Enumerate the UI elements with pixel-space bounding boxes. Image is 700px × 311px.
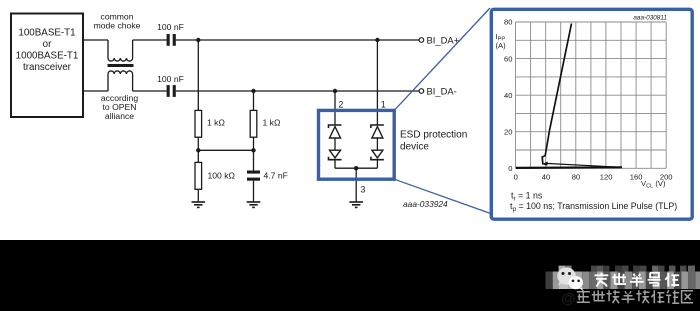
svg-text:BI_DA+: BI_DA+ bbox=[427, 35, 460, 46]
footer watermark text (CJK strokes) bbox=[577, 290, 693, 303]
svg-text:40: 40 bbox=[542, 173, 550, 182]
callout line bottom bbox=[394, 179, 492, 214]
wire ESD pin 1 stub bbox=[376, 40, 378, 125]
svg-text:ESD protection: ESD protection bbox=[400, 130, 467, 141]
svg-text:aaa-033924: aaa-033924 bbox=[403, 199, 448, 209]
footer wechat icon bbox=[557, 267, 583, 290]
diode D4 bottom right triangle bbox=[372, 150, 383, 158]
wire D1 to D2 bbox=[334, 138, 336, 150]
curve TLP flat leakage line bbox=[516, 166, 622, 169]
wire ESD bottom rail bbox=[335, 167, 377, 169]
diode D1 triangle bbox=[330, 127, 341, 138]
svg-text:40: 40 bbox=[504, 91, 512, 100]
graph grid bbox=[516, 22, 667, 168]
svg-text:1 kΩ: 1 kΩ bbox=[207, 118, 225, 128]
wire R2 to C3 bbox=[253, 137, 255, 170]
wire R1 branch bbox=[197, 40, 199, 110]
label common mode choke bbox=[94, 12, 141, 31]
svg-text:0: 0 bbox=[508, 164, 512, 173]
svg-text:60: 60 bbox=[504, 54, 512, 63]
wire top BI_DA+ line bbox=[83, 39, 419, 41]
capacitor C3 4.7 nF bbox=[247, 171, 260, 181]
node junction top wire / R1 bbox=[196, 38, 200, 42]
svg-text:(A): (A) bbox=[496, 41, 507, 50]
wire D4 to rail bbox=[376, 160, 378, 169]
common mode choke L1 bottom winding bbox=[108, 71, 133, 91]
capacitor C2 100 nF bottom bbox=[167, 85, 176, 97]
common mode choke L1 top winding bbox=[108, 40, 133, 61]
diode D2 bottom left triangle bbox=[330, 150, 341, 158]
diode D3 top right (zener bar) bbox=[371, 125, 384, 128]
wire D3 to D4 bbox=[376, 138, 378, 150]
wire C3 to ground bbox=[253, 181, 255, 202]
resistor R2 1 kOhm bbox=[250, 110, 257, 137]
curve steep clamp line bbox=[542, 24, 571, 165]
wire bottom BI_DA- line bbox=[83, 90, 419, 92]
curve snapback line bbox=[546, 163, 623, 167]
svg-text:80: 80 bbox=[504, 18, 512, 27]
ground under C3 bbox=[247, 202, 261, 207]
node junction R1/R3/connector bbox=[196, 148, 200, 152]
svg-text:100 kΩ: 100 kΩ bbox=[208, 171, 236, 181]
svg-text:BI_DA-: BI_DA- bbox=[427, 86, 457, 97]
footer brand text (CJK strokes) bbox=[595, 273, 680, 287]
diode D1 top left (zener bar) bbox=[329, 125, 342, 128]
label according to OPEN alliance bbox=[101, 93, 138, 121]
svg-text:20: 20 bbox=[504, 127, 512, 136]
node junction bottom wire / ESD pin 2 bbox=[333, 89, 337, 93]
graph y-axis labels bbox=[504, 18, 512, 173]
terminal BI_DA+ bbox=[419, 38, 424, 43]
diode D2 bar bbox=[329, 157, 342, 160]
resistor R3 100 kOhm bbox=[195, 162, 202, 189]
svg-text:100BASE-T1: 100BASE-T1 bbox=[18, 28, 75, 39]
axis title Ipp (A) bbox=[496, 32, 507, 50]
wire R3 to ground bbox=[197, 189, 199, 202]
svg-text:3: 3 bbox=[361, 185, 366, 195]
common mode choke L1 core bbox=[108, 64, 134, 67]
capacitor C1 100 nF top bbox=[167, 34, 176, 46]
wire R1 to R3 bbox=[197, 137, 199, 162]
footer black band bbox=[0, 240, 700, 311]
svg-text:4.7 nF: 4.7 nF bbox=[264, 171, 288, 181]
graph x-axis labels bbox=[514, 173, 673, 182]
svg-text:alliance: alliance bbox=[105, 111, 134, 121]
resistor R1 1 kOhm bbox=[195, 110, 202, 137]
svg-text:0: 0 bbox=[514, 173, 518, 182]
diode D4 bar bbox=[371, 157, 384, 160]
ESD protection device box bbox=[319, 110, 395, 179]
svg-text:mode choke: mode choke bbox=[94, 20, 141, 30]
wire pin 3 stub bbox=[355, 168, 357, 202]
diode D3 triangle bbox=[372, 127, 383, 138]
svg-text:120: 120 bbox=[600, 173, 613, 182]
svg-text:@: @ bbox=[561, 290, 576, 307]
label ESD protection device bbox=[400, 130, 467, 153]
wire connector between branches bbox=[198, 149, 253, 151]
wire R2 branch bbox=[253, 91, 255, 110]
svg-text:VCL (V): VCL (V) bbox=[641, 179, 666, 190]
svg-text:transceiver: transceiver bbox=[23, 62, 72, 73]
ground under R3 bbox=[192, 202, 206, 207]
svg-text:1 kΩ: 1 kΩ bbox=[263, 118, 281, 128]
svg-text:2: 2 bbox=[339, 100, 344, 110]
wire ESD pin 2 stub bbox=[334, 91, 336, 125]
svg-text:1000BASE-T1: 1000BASE-T1 bbox=[16, 51, 79, 62]
svg-text:100 nF: 100 nF bbox=[157, 74, 184, 84]
svg-text:device: device bbox=[400, 142, 429, 153]
ground under pin 3 bbox=[349, 202, 363, 207]
node junction bottom wire / R2 bbox=[251, 89, 255, 93]
curve snapback arrowhead bbox=[542, 162, 548, 166]
svg-text:1: 1 bbox=[381, 100, 386, 110]
svg-text:100 nF: 100 nF bbox=[157, 22, 184, 32]
terminal BI_DA- bbox=[419, 89, 424, 94]
svg-text:or: or bbox=[43, 39, 52, 50]
footer mosaic blocks bbox=[546, 266, 700, 289]
svg-text:80: 80 bbox=[572, 173, 580, 182]
transceiver box U1 bbox=[11, 14, 83, 118]
wire D2 to rail bbox=[334, 160, 336, 169]
svg-text:aaa-030811: aaa-030811 bbox=[633, 15, 667, 22]
callout line top bbox=[394, 8, 490, 110]
node junction R2/C3/connector bbox=[251, 148, 255, 152]
node junction top wire / ESD pin 1 bbox=[375, 38, 379, 42]
node junction pin 3 bbox=[354, 166, 358, 170]
inset panel frame bbox=[491, 9, 692, 219]
